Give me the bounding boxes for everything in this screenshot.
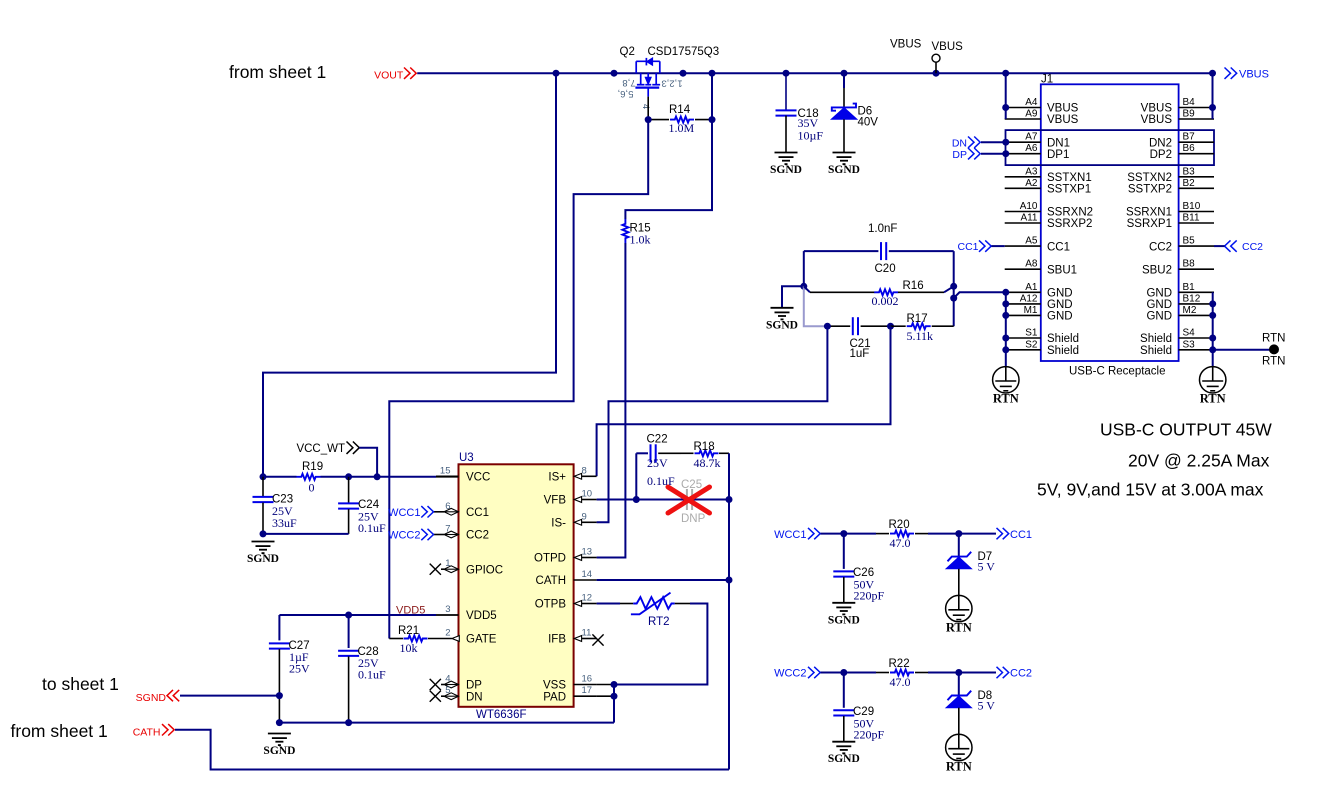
svg-text:VBUS: VBUS (932, 41, 964, 53)
wire VBUS to J1 A4/A9 (1005, 73, 1007, 119)
svg-text:VBUS: VBUS (890, 39, 922, 51)
svg-text:220pF: 220pF (854, 728, 885, 742)
svg-text:5 V: 5 V (978, 560, 996, 574)
svg-text:CC1: CC1 (957, 241, 978, 253)
svg-text:DP: DP (466, 680, 482, 692)
wire C22 left vertical (635, 453, 637, 499)
svg-text:VDD5: VDD5 (396, 605, 425, 617)
pin A12 (GND) J1 left (1005, 303, 1041, 305)
pin B6 (DP2) J1 right (1179, 153, 1214, 155)
svg-text:9: 9 (582, 511, 587, 522)
svg-text:USB-C Receptacle: USB-C Receptacle (1069, 366, 1166, 378)
svg-text:2: 2 (445, 628, 450, 639)
svg-text:3: 3 (445, 604, 450, 615)
svg-text:GND: GND (1146, 299, 1172, 311)
wire SGND bottom rail (279, 722, 614, 724)
ground RTN (J1 left) (993, 367, 1019, 393)
svg-text:GND: GND (1047, 299, 1073, 311)
pin A3 (SSTXN1) J1 left (1005, 176, 1041, 178)
svg-text:47.0: 47.0 (890, 675, 911, 689)
wire GND left vertical (A1/A12/M1/S1/S2) (1005, 292, 1007, 366)
svg-text:VFB: VFB (544, 495, 567, 507)
svg-text:GND: GND (1047, 288, 1073, 300)
svg-text:A12: A12 (1020, 293, 1038, 304)
svg-text:25V: 25V (647, 456, 668, 470)
pin M2 (GND) J1 right (1179, 314, 1214, 316)
ground SGND (shunt network) (771, 307, 794, 309)
svg-text:GND: GND (1146, 311, 1172, 323)
svg-text:A7: A7 (1025, 132, 1038, 143)
pin A5 (CC1) J1 left (1005, 245, 1041, 247)
svg-text:CATH: CATH (536, 575, 566, 587)
wire VOUT branch down-left to VCC rail (263, 73, 556, 477)
svg-text:R22: R22 (889, 658, 910, 670)
svg-text:10µF: 10µF (798, 129, 824, 143)
wire R14 right down to R15 (625, 120, 712, 219)
transistor Q2 CSD17575Q3 (635, 58, 660, 97)
wire DP to A6 (981, 153, 1006, 155)
pin S4 (Shield) J1 right (1179, 337, 1214, 339)
svg-text:GND: GND (1047, 311, 1073, 323)
svg-text:CC2: CC2 (466, 530, 489, 542)
ground SGND (bottom rail) (268, 733, 291, 735)
svg-text:0.002: 0.002 (872, 294, 899, 308)
svg-text:R17: R17 (907, 313, 928, 325)
svg-text:1,2,3: 1,2,3 (661, 77, 682, 88)
ground SGND (C23) (252, 541, 275, 543)
svg-text:0: 0 (309, 481, 315, 495)
pin A11 (SSRXP2) J1 left (1005, 222, 1041, 224)
svg-text:SSTXP2: SSTXP2 (1128, 184, 1172, 196)
svg-text:16: 16 (582, 674, 593, 685)
svg-text:17: 17 (582, 685, 593, 696)
svg-text:SSTXN1: SSTXN1 (1047, 172, 1092, 184)
svg-text:RTN: RTN (993, 392, 1019, 406)
svg-text:R19: R19 (302, 461, 323, 473)
ground SGND (C29) (832, 741, 855, 743)
svg-text:A10: A10 (1020, 201, 1038, 212)
svg-text:5V, 9V,and 15V at 3.00A max: 5V, 9V,and 15V at 3.00A max (1037, 480, 1264, 500)
svg-text:CC2: CC2 (1010, 668, 1032, 680)
capacitor C22 25V 0.1uF (636, 452, 648, 454)
svg-text:1uF: 1uF (850, 348, 870, 360)
wire VFB row (597, 499, 686, 501)
svg-text:SGND: SGND (136, 692, 167, 704)
connector J1 USB-C receptacle (1041, 84, 1179, 361)
svg-text:14: 14 (582, 569, 593, 580)
svg-text:VBUS: VBUS (1141, 114, 1173, 126)
svg-text:CC1: CC1 (466, 507, 489, 519)
capacitor C25 DNP (not placed) (686, 489, 688, 510)
svg-text:B8: B8 (1183, 259, 1196, 270)
wire VCC rail (263, 476, 297, 478)
wire VSS/PAD junctions (597, 684, 614, 686)
svg-text:VBUS: VBUS (1047, 114, 1079, 126)
pin B9 (VBUS) J1 right (1179, 118, 1214, 120)
wire VBUS to J1 B4/B9 (1212, 73, 1214, 119)
svg-text:Q2: Q2 (620, 46, 635, 58)
svg-text:S2: S2 (1025, 339, 1038, 350)
svg-text:SSRXN1: SSRXN1 (1126, 207, 1172, 219)
pin A6 (DP1) J1 left (1005, 153, 1041, 155)
svg-text:SSRXN2: SSRXN2 (1047, 207, 1093, 219)
svg-text:WCC1: WCC1 (388, 507, 420, 519)
svg-text:J1: J1 (1041, 74, 1053, 86)
svg-text:DN2: DN2 (1149, 137, 1172, 149)
svg-text:WT6636F: WT6636F (476, 709, 527, 721)
svg-text:A6: A6 (1025, 143, 1038, 154)
svg-text:B6: B6 (1183, 143, 1196, 154)
svg-text:B5: B5 (1183, 236, 1196, 247)
pin A10 (SSRXN2) J1 left (1005, 211, 1041, 213)
svg-text:SBU2: SBU2 (1142, 264, 1172, 276)
capacitor C20 1.0nF (804, 250, 879, 252)
capacitor C24 25V 0.1uF (348, 477, 350, 503)
svg-text:M1: M1 (1024, 305, 1038, 316)
resistor R15 (622, 219, 628, 243)
svg-text:SGND: SGND (247, 553, 279, 565)
svg-text:Shield: Shield (1140, 333, 1172, 345)
diode D8 zener 5V (958, 673, 960, 697)
svg-text:B4: B4 (1183, 97, 1196, 108)
pin B3 (SSTXN2) J1 right (1179, 176, 1214, 178)
svg-text:WCC1: WCC1 (774, 529, 806, 541)
svg-text:from sheet 1: from sheet 1 (229, 62, 326, 82)
svg-text:IFB: IFB (548, 634, 566, 646)
svg-text:CC1: CC1 (1010, 529, 1032, 541)
resistor R21 10k (389, 638, 403, 640)
svg-text:GPIOC: GPIOC (466, 564, 503, 576)
wire PAD down to SGND rail (613, 685, 615, 723)
svg-text:SGND: SGND (263, 745, 295, 757)
pin A2 (SSTXP1) J1 left (1005, 187, 1041, 189)
svg-text:CATH: CATH (133, 727, 161, 739)
thermistor RT2 (633, 597, 675, 609)
svg-text:RTN: RTN (1262, 356, 1285, 368)
pin M1 (GND) J1 left (1005, 314, 1041, 316)
wire VBUS to R14 right (711, 73, 713, 119)
svg-text:to sheet 1: to sheet 1 (42, 674, 119, 694)
wire to J1 GND (A1) (954, 292, 1005, 298)
pin B4 (VBUS) J1 right (1179, 107, 1214, 109)
svg-text:A2: A2 (1025, 178, 1038, 189)
wire CATH routing (175, 730, 729, 770)
svg-text:10k: 10k (400, 641, 418, 655)
svg-text:SGND: SGND (828, 164, 860, 176)
pin S1 (Shield) J1 left (1005, 337, 1041, 339)
ground SGND (C26) (832, 602, 855, 604)
svg-text:RTN: RTN (946, 620, 972, 634)
svg-text:VSS: VSS (543, 680, 566, 692)
svg-text:SGND: SGND (828, 753, 860, 765)
svg-text:48.7k: 48.7k (694, 456, 721, 470)
svg-text:B1: B1 (1183, 282, 1196, 293)
pin B8 (SBU2) J1 right (1179, 268, 1214, 270)
wire VDD5 rail (278, 614, 280, 616)
svg-text:R21: R21 (398, 625, 419, 637)
svg-text:R16: R16 (903, 280, 924, 292)
svg-text:SGND: SGND (770, 164, 802, 176)
ground SGND (C18) (775, 152, 798, 154)
svg-text:5,6,: 5,6, (618, 88, 634, 99)
svg-text:SSTXP1: SSTXP1 (1047, 184, 1091, 196)
diode D6 zener 40V (843, 73, 845, 88)
svg-text:13: 13 (582, 547, 593, 558)
svg-text:R14: R14 (669, 104, 691, 116)
capacitor C18 (785, 73, 787, 110)
wire R16 right to sense node (944, 286, 954, 292)
svg-text:11: 11 (582, 628, 592, 639)
svg-text:CC2: CC2 (1242, 241, 1263, 253)
IC U3 WT6636F (459, 464, 574, 707)
svg-text:CC1: CC1 (1047, 241, 1070, 253)
X mark over C25 (668, 487, 710, 513)
svg-text:DN1: DN1 (1047, 137, 1070, 149)
svg-text:0.1uF: 0.1uF (358, 521, 386, 535)
svg-text:A9: A9 (1025, 109, 1038, 120)
svg-text:SBU1: SBU1 (1047, 264, 1077, 276)
pin B10 (SSRXN1) J1 right (1179, 211, 1214, 213)
pin A1 (GND) J1 left (1005, 291, 1041, 293)
pin S2 (Shield) J1 left (1005, 349, 1041, 351)
svg-text:U3: U3 (459, 452, 474, 464)
svg-text:RT2: RT2 (648, 616, 670, 628)
wire SGND tap (782, 286, 804, 308)
svg-text:from sheet 1: from sheet 1 (11, 721, 108, 741)
wire sense node right vertical (953, 251, 955, 326)
svg-text:B11: B11 (1183, 213, 1200, 224)
ground RTN (D7) (946, 595, 972, 621)
capacitor C27 1uF 25V (278, 615, 280, 640)
svg-text:VDD5: VDD5 (466, 610, 497, 622)
svg-text:20V @ 2.25A Max: 20V @ 2.25A Max (1128, 451, 1270, 471)
svg-text:DP1: DP1 (1047, 149, 1069, 161)
node RTN tie point (1269, 344, 1279, 354)
svg-text:IS-: IS- (551, 518, 566, 530)
wire OTPB to RT2 (597, 603, 620, 605)
svg-text:A5: A5 (1025, 236, 1038, 247)
svg-text:SGND: SGND (828, 614, 860, 626)
svg-text:USB-C OUTPUT 45W: USB-C OUTPUT 45W (1100, 420, 1272, 440)
wire network left vertical (803, 251, 805, 286)
svg-text:RTN: RTN (946, 759, 972, 773)
svg-text:RTN: RTN (1262, 333, 1285, 345)
svg-text:VOUT: VOUT (374, 70, 404, 82)
resistor R17 5.11k (891, 325, 906, 327)
svg-text:OTPB: OTPB (535, 599, 567, 611)
box DN/DP group (1006, 130, 1215, 165)
resistor R16 0.002 shunt (804, 286, 810, 292)
svg-text:220pF: 220pF (854, 589, 885, 603)
wire VCC_WT to VCC rail (359, 448, 377, 477)
wire S3 to RTN tie (1213, 349, 1274, 351)
svg-text:VBUS: VBUS (1141, 103, 1173, 115)
svg-text:RTN: RTN (1200, 392, 1226, 406)
wire Q2 gate to R14 (647, 97, 649, 120)
svg-text:R18: R18 (694, 441, 715, 453)
capacitor C26 50V 220pF (843, 534, 845, 569)
wire C23/C24 bottoms (263, 533, 349, 535)
svg-text:SGND: SGND (766, 319, 798, 331)
svg-text:IS+: IS+ (548, 472, 566, 484)
svg-text:S3: S3 (1183, 339, 1196, 350)
pin A8 (SBU1) J1 left (1005, 268, 1041, 270)
svg-text:1.0M: 1.0M (669, 121, 695, 135)
svg-text:1.0k: 1.0k (630, 233, 651, 247)
pin B1 (GND) J1 right (1179, 291, 1214, 293)
svg-text:5.11k: 5.11k (907, 329, 934, 343)
wire WCC2 row (821, 672, 877, 674)
wire GND right vertical (B1/B12/M2/S4/S3) (1212, 292, 1214, 366)
resistor R19 0 (297, 474, 321, 480)
svg-text:40V: 40V (858, 117, 879, 129)
wire C21 right to IS+ (597, 326, 891, 476)
pin B7 (DN2) J1 right (1179, 141, 1214, 143)
resistor R14 (648, 119, 669, 121)
pin S3 (Shield) J1 right (1179, 349, 1214, 351)
pin A9 (VBUS) J1 left (1005, 118, 1041, 120)
svg-text:C25: C25 (681, 479, 702, 491)
svg-text:4: 4 (640, 104, 651, 109)
svg-text:VCC_WT: VCC_WT (296, 443, 345, 455)
wire R15 bottom to OTPD (597, 243, 626, 558)
svg-text:B9: B9 (1183, 109, 1196, 120)
capacitor C23 25V 33uF (262, 477, 264, 497)
svg-text:C22: C22 (647, 434, 668, 446)
pin A4 (VBUS) J1 left (1005, 107, 1041, 109)
svg-text:DNP: DNP (681, 513, 706, 525)
svg-text:5 V: 5 V (978, 699, 996, 713)
svg-text:GATE: GATE (466, 634, 497, 646)
capacitor C29 50V 220pF (843, 673, 845, 708)
svg-text:12: 12 (582, 593, 593, 604)
svg-text:A1: A1 (1025, 282, 1038, 293)
ground RTN (J1 right) (1200, 367, 1226, 393)
wire C21 left to gate-line (597, 326, 828, 522)
svg-text:CC2: CC2 (1149, 241, 1172, 253)
capacitor C28 25V 0.1uF (348, 615, 350, 648)
ground RTN (D8) (946, 734, 972, 760)
wire CATH pin to vertical (597, 579, 729, 581)
svg-text:DP: DP (952, 149, 967, 161)
wire RT2 to VSS (675, 603, 690, 605)
svg-text:S4: S4 (1183, 328, 1196, 339)
svg-text:B7: B7 (1183, 132, 1196, 143)
svg-text:C20: C20 (875, 263, 896, 275)
svg-text:B3: B3 (1183, 166, 1196, 177)
svg-text:DN: DN (952, 138, 967, 150)
pin B2 (SSTXP2) J1 right (1179, 187, 1214, 189)
port CC2 (J1) (1225, 240, 1237, 251)
ground SGND (D6) (833, 152, 856, 154)
svg-text:Shield: Shield (1140, 345, 1172, 357)
svg-text:B12: B12 (1183, 293, 1201, 304)
pin B12 (GND) J1 right (1179, 303, 1214, 305)
svg-text:10: 10 (582, 489, 593, 500)
svg-text:SSRXP1: SSRXP1 (1127, 218, 1172, 230)
wire CC1 to A5 (992, 245, 1005, 247)
svg-text:15: 15 (440, 465, 451, 476)
svg-text:A3: A3 (1025, 166, 1038, 177)
svg-text:VCC: VCC (466, 472, 490, 484)
port CC2 (output) (997, 667, 1009, 678)
port CC1 (output) (997, 528, 1009, 539)
wire VFB/CATH right vertical (728, 500, 730, 770)
svg-text:R20: R20 (889, 519, 910, 531)
pin B11 (SSRXP1) J1 right (1179, 222, 1214, 224)
svg-text:7,8: 7,8 (622, 77, 635, 88)
svg-text:VBUS: VBUS (1047, 103, 1079, 115)
svg-text:OTPD: OTPD (534, 553, 566, 565)
svg-text:SSRXP2: SSRXP2 (1047, 218, 1092, 230)
wire SGND port to C27 (180, 695, 279, 697)
svg-text:A11: A11 (1020, 213, 1037, 224)
svg-text:47.0: 47.0 (890, 536, 911, 550)
wire WCC1 row (821, 533, 877, 535)
port VBUS (right) (1225, 68, 1237, 79)
svg-text:Shield: Shield (1047, 345, 1079, 357)
svg-text:SSTXN2: SSTXN2 (1127, 172, 1172, 184)
wire R18 right vertical (728, 453, 730, 499)
wire gate net: R14 left down-left to R21 column (389, 120, 648, 639)
svg-text:25V: 25V (289, 662, 310, 676)
svg-text:WCC2: WCC2 (388, 530, 420, 542)
wire DN to A7 (981, 141, 1006, 143)
wire network left vertical lower (light) (804, 286, 828, 326)
svg-text:PAD: PAD (543, 691, 566, 703)
pin A7 (DN1) J1 left (1005, 141, 1041, 143)
svg-text:0.1uF: 0.1uF (358, 668, 386, 682)
svg-text:S1: S1 (1025, 328, 1038, 339)
svg-text:WCC2: WCC2 (774, 668, 806, 680)
svg-text:CSD17575Q3: CSD17575Q3 (648, 46, 720, 58)
wire CC2 to B5 (1214, 245, 1225, 247)
svg-text:DN: DN (466, 691, 483, 703)
svg-text:VBUS: VBUS (1239, 69, 1269, 81)
svg-text:1.0nF: 1.0nF (868, 223, 897, 235)
svg-text:B2: B2 (1183, 178, 1196, 189)
svg-text:GND: GND (1146, 288, 1172, 300)
wire VOUT/VBUS top rail (417, 72, 1212, 74)
diode D7 zener 5V (958, 534, 960, 558)
svg-text:Shield: Shield (1047, 333, 1079, 345)
capacitor C21 1uF (827, 325, 850, 327)
svg-text:33uF: 33uF (272, 516, 297, 530)
svg-text:8: 8 (582, 465, 587, 476)
svg-text:B10: B10 (1183, 201, 1201, 212)
svg-text:M2: M2 (1183, 305, 1197, 316)
pin B5 (CC2) J1 right (1179, 245, 1214, 247)
resistor R18 48.7k (695, 450, 719, 456)
node VOUT rail junctions (553, 70, 560, 77)
svg-text:DP2: DP2 (1150, 149, 1172, 161)
svg-text:A4: A4 (1025, 97, 1038, 108)
svg-text:A8: A8 (1025, 259, 1038, 270)
